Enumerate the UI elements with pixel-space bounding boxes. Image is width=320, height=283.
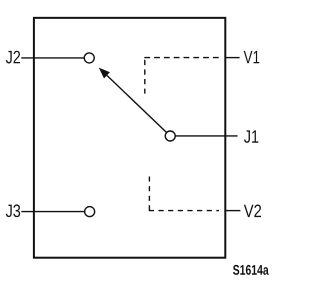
- wire J3 lead: [21, 211, 84, 213]
- switch arm arrowhead: [99, 68, 110, 79]
- dashed alternate path to V2 (vertical): [148, 177, 150, 211]
- switch arm wire (pole from J1): [107, 76, 167, 133]
- wire V1 nub: [225, 57, 240, 59]
- node J2 label: [6, 51, 20, 64]
- dashed alternate path to V1 (vertical): [144, 60, 146, 94]
- terminal contact circle J3: [85, 207, 95, 217]
- dashed alternate path to V1 (horizontal): [144, 57, 219, 59]
- dashed alternate path to V2 (horizontal): [149, 210, 219, 212]
- switch body box: [34, 18, 225, 258]
- node V1 label: [244, 51, 260, 63]
- figure number S1614a: [233, 265, 269, 275]
- node J3 label: [6, 204, 20, 217]
- node V2 label: [244, 205, 261, 218]
- wire J1 lead: [175, 135, 237, 137]
- terminal contact circle J1: [165, 131, 175, 141]
- terminal contact circle J2: [84, 53, 94, 63]
- node J1 label: [244, 130, 258, 143]
- wire V2 nub: [225, 210, 241, 212]
- wire J2 lead: [21, 57, 84, 59]
